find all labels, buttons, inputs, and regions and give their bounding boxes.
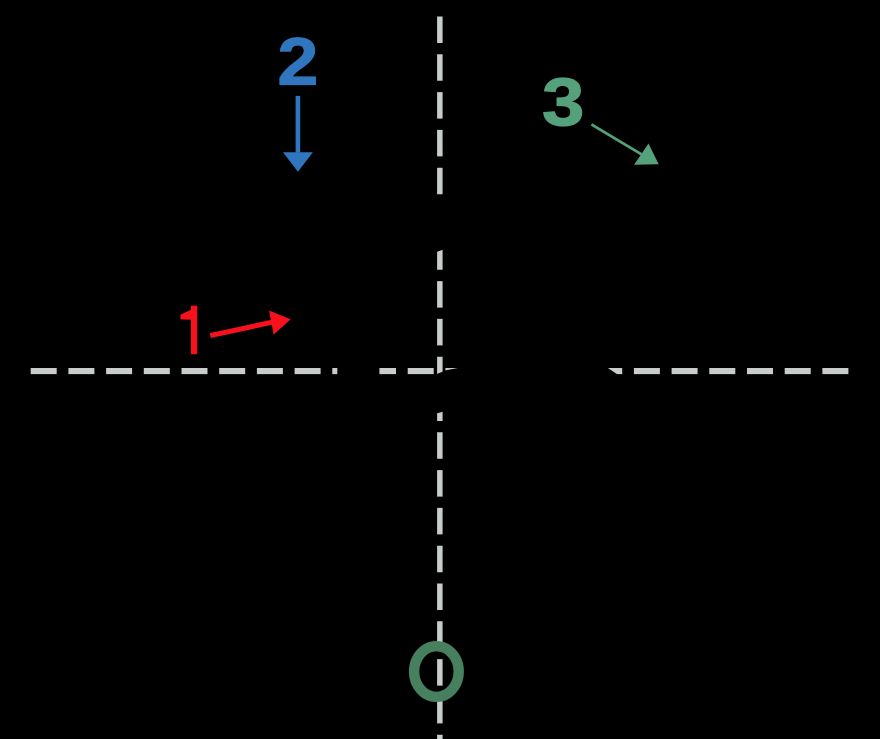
curve hugging x-axis (black, covers axis from origin to x=618): [428, 368, 618, 380]
curve crossing y-axis (black, covers vertical dashes y=195..249): [433, 195, 447, 253]
curve below origin (black, covers vertical dashes y=372..412): [435, 378, 444, 413]
origin label O (green ring, drawn over the axis): [414, 646, 459, 697]
arrow 3 (green, pointing down-right): [591, 124, 641, 154]
svg-text:2: 2: [278, 25, 319, 99]
label 1 (red digit, custom narrow glyph): [180, 306, 197, 355]
svg-text:3: 3: [542, 65, 584, 140]
label 2 (blue digit): [278, 25, 319, 99]
curve 1 (black, covers x-axis dashes between x=337 and x=379): [337, 364, 379, 379]
y-axis (vertical dashed line): [437, 17, 443, 739]
x-axis (horizontal dashed line): [31, 368, 849, 374]
arrow 2 (blue, pointing down): [296, 96, 301, 152]
label 3 (green digit): [542, 65, 584, 140]
arrow 1 (red, pointing right slightly up): [210, 322, 272, 335]
